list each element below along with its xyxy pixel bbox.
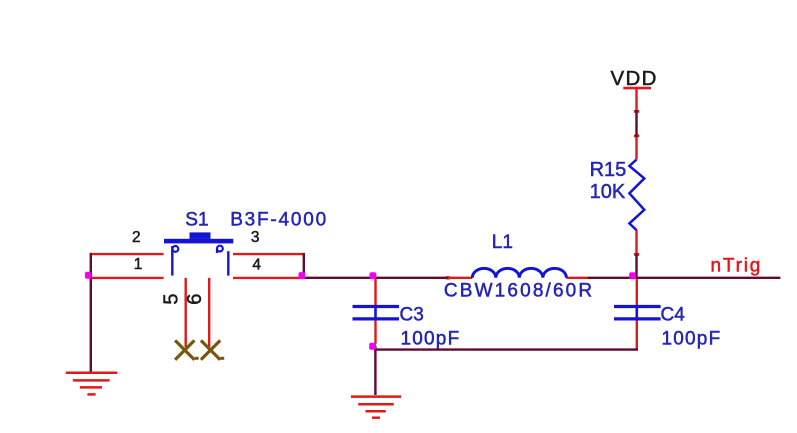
svg-text:C3: C3 <box>400 305 424 326</box>
svg-text:L1: L1 <box>492 232 513 253</box>
svg-text:nTrig: nTrig <box>711 255 763 276</box>
svg-text:S1: S1 <box>185 210 208 231</box>
svg-text:R15: R15 <box>590 159 627 181</box>
svg-text:B3F-4000: B3F-4000 <box>230 210 328 231</box>
svg-text:1: 1 <box>134 256 143 273</box>
svg-text:2: 2 <box>132 229 141 246</box>
svg-text:10K: 10K <box>590 181 626 203</box>
svg-text:C4: C4 <box>661 305 686 326</box>
svg-text:6: 6 <box>184 294 206 305</box>
svg-text:100pF: 100pF <box>401 328 461 349</box>
svg-text:4: 4 <box>252 256 261 273</box>
svg-text:VDD: VDD <box>611 67 658 90</box>
svg-text:5: 5 <box>161 293 183 304</box>
svg-text:3: 3 <box>251 229 260 246</box>
svg-text:CBW1608/60R: CBW1608/60R <box>444 281 594 302</box>
svg-text:100pF: 100pF <box>662 328 722 349</box>
